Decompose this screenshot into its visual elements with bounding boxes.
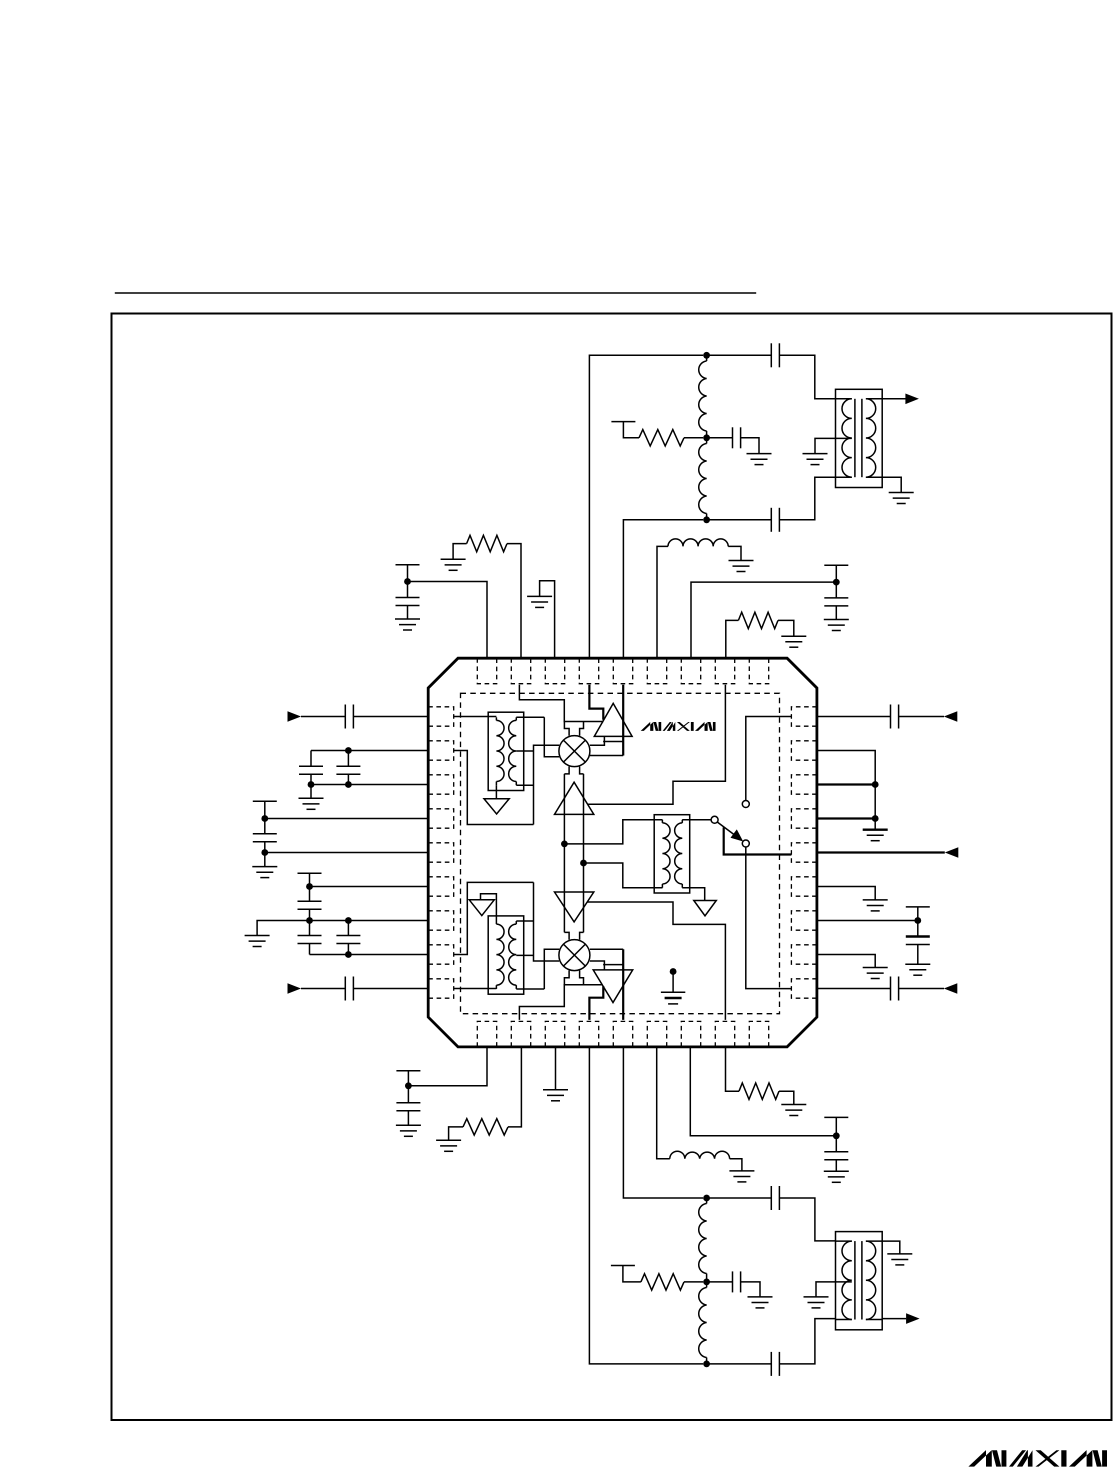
capacitor C12 (336, 936, 360, 944)
resistor R3 (738, 612, 778, 628)
wire pin R6 ground stub (817, 887, 875, 900)
mixer M1 (559, 736, 590, 767)
capacitor C19 (771, 1186, 779, 1210)
wire C20 to ground (741, 1282, 760, 1297)
ground R3 (781, 636, 806, 647)
wire upper throw to pin R1 (746, 717, 792, 801)
wire node bot-3 to C21 (707, 1363, 772, 1365)
capacitor C9 (253, 834, 277, 842)
wire node to T4 primary bottom (584, 863, 663, 888)
mixer M1 top collar right (580, 722, 584, 736)
ground R5b (781, 1105, 806, 1116)
ground triangle T3 (484, 799, 509, 814)
wire L3 to ground (728, 546, 741, 560)
ground pin B3 (543, 1090, 568, 1101)
wire pin R9 to C16 (817, 988, 891, 990)
wire pin L2 internal (454, 751, 534, 825)
wire pin L7 row (257, 921, 428, 936)
coil L1 bottom lead (706, 431, 708, 438)
wire to mixer M2 in+ (544, 949, 559, 989)
T5 right bottom lead (516, 988, 544, 990)
wire pin B3 ground stub (555, 1047, 557, 1090)
capacitor C5 (824, 598, 848, 606)
node VCC4-a (306, 883, 313, 890)
capacitor C6 (345, 705, 353, 729)
inductor L1 upper half (699, 361, 707, 431)
wire pin B6 to L4 (657, 1047, 670, 1159)
wire to mixer M2 in- (534, 882, 560, 961)
wire arrow to C13 (301, 988, 345, 990)
arrow input R1 (944, 711, 958, 722)
wire pin R3 bold (817, 783, 875, 785)
ground L3 (729, 561, 754, 572)
cap C10 bottom lead (309, 909, 311, 920)
wire exposed pad to ground (672, 972, 674, 993)
wire to mixer M1 in+ (534, 745, 560, 824)
node VCC3-b (261, 849, 268, 856)
arrow input R9 (944, 983, 958, 994)
T3 right bottom lead (516, 784, 533, 786)
wire T1 tap to ground (815, 438, 852, 453)
wire VCC3 bar to node (264, 801, 266, 818)
wire R2 to ground (453, 544, 467, 560)
switch pole contact (711, 816, 718, 823)
LO amp A4 pedestal (603, 964, 624, 966)
ground T1 tap (803, 454, 828, 465)
wire node to T4 primary top (564, 820, 662, 844)
mixer M2 bottom collar left (564, 971, 569, 985)
coil L6 top lead (706, 1282, 708, 1288)
wire pin R7 to VCC5 (817, 920, 918, 922)
wire C16 to arrow (899, 988, 944, 990)
transformer T3 (internal) (488, 712, 524, 790)
inductor L4 (670, 1151, 730, 1159)
coil L2 bottom lead (706, 514, 708, 520)
wire VCC6 bar to node (407, 1071, 409, 1086)
cap C10 top lead (309, 887, 311, 902)
supply terminal VCC5 (906, 906, 930, 908)
wire pin B5 to bottom net (623, 1047, 703, 1198)
wire pin B2 internal (519, 985, 602, 1020)
capacitor C13 (345, 977, 353, 1001)
resistor R2 (467, 535, 507, 551)
ground C4 (395, 619, 420, 630)
cap C11 bottom lead (309, 943, 311, 954)
coil L5 top lead (706, 1198, 708, 1204)
wire C21 to balun T2 lower (779, 1319, 835, 1364)
node L2-a (345, 747, 352, 754)
wire T1 output (882, 398, 905, 400)
node L7-b (345, 917, 352, 924)
wire L4 to ground (730, 1159, 742, 1171)
node L7-a (306, 917, 313, 924)
inductor L5 upper half (699, 1204, 707, 1274)
wire C14 to arrow (899, 716, 944, 718)
node junction top-1 (703, 352, 710, 359)
terminal stub drop top (623, 422, 639, 438)
node VCC3-a (261, 815, 268, 822)
wire pin T8 to R3 (726, 620, 739, 658)
node diff left (561, 841, 568, 848)
transformer T5 (internal) (488, 916, 524, 994)
wire VCC7 node to C18 (835, 1136, 837, 1152)
T4 secondary bottom lead (682, 888, 705, 901)
wire top node to C1 (707, 354, 772, 356)
wire VCC4 bar to node (309, 873, 311, 886)
wire VCC2 to pin T7 (691, 582, 836, 658)
wire VCC7 bar to node (835, 1117, 837, 1135)
node L8-a (345, 951, 352, 958)
mixer M1 bottom collar right (580, 767, 584, 774)
wire VCC6 node to C17 (407, 1086, 409, 1103)
IC pin pads (dashed) (428, 658, 817, 1047)
coil L1 top lead (706, 355, 708, 361)
wire lower throw to pin R9 (746, 847, 792, 989)
wire pin T2 to R2 (507, 544, 521, 659)
wire pin L8 row (310, 954, 429, 956)
capacitor C15 (906, 937, 930, 945)
wire pin T5 to bottom node (623, 520, 703, 658)
coil L2 top lead (706, 438, 708, 444)
coil L6 bottom lead (706, 1358, 708, 1364)
node diff right (580, 860, 587, 867)
wire pin B8 to R5b (726, 1047, 740, 1091)
wire bot node to C19 (707, 1197, 772, 1199)
ground L7 row (245, 936, 270, 947)
capacitor C10 (298, 901, 322, 909)
wire to pin L5 (265, 852, 428, 854)
node R4 (872, 815, 879, 822)
capacitor C4 (396, 598, 420, 606)
supply terminal VCC7 (824, 1116, 848, 1118)
T5 right tap lead (516, 954, 533, 956)
cap C12 top lead (347, 921, 349, 936)
MAXIM logo footer (968, 1450, 1107, 1466)
switch blade arrowhead (731, 829, 744, 841)
wire C15 to ground (917, 945, 919, 965)
T5 right top lead (516, 920, 533, 922)
wire pin L8 internal (454, 882, 534, 954)
supply terminal VCC1 (396, 564, 420, 566)
wire pin R5 bold (817, 851, 945, 853)
switch throw contact upper (742, 801, 749, 808)
switch throw contact lower (742, 840, 749, 847)
ground stub L3 row (310, 785, 312, 799)
node junction top-3 (703, 516, 710, 523)
coil L5 bottom lead (706, 1274, 708, 1282)
supply terminal VCC2 (824, 564, 848, 566)
wire R5b to ground (779, 1091, 794, 1104)
LO amp A1 (594, 703, 632, 736)
amp A3 (down) (555, 892, 594, 922)
wire C13 to pin L9 (353, 988, 428, 990)
node junction bot-3 (703, 1361, 710, 1368)
capacitor C8 (336, 766, 360, 774)
cap C11 top lead (309, 921, 311, 936)
transformer T4 (internal) (654, 815, 690, 893)
wire pin T2 internal (519, 685, 603, 722)
wire VCC1 to pin T1 (408, 582, 488, 659)
mixer M2 top collar left (564, 932, 569, 939)
T3 right top lead (516, 716, 544, 718)
header rule (115, 292, 756, 294)
resistor R6b (641, 1274, 684, 1290)
arrow input L1 (288, 711, 302, 722)
wire C5 to ground (835, 606, 837, 620)
wire C4 to ground (407, 606, 409, 620)
mixer M2 out lower (590, 961, 605, 970)
node junction bot-2 (703, 1279, 710, 1286)
arrow RF output bottom (906, 1313, 920, 1324)
wire pin L3 row (311, 784, 428, 786)
node junction bot-1 (703, 1195, 710, 1202)
wire C3 to balun T1 lower (779, 477, 835, 520)
ground C18 (824, 1171, 849, 1182)
node exposed pad (670, 968, 677, 975)
wire C2 to ground (741, 438, 759, 454)
wire VCC2 bar to node (835, 565, 837, 582)
transformer T1 (output balun) (836, 389, 883, 487)
mixer M1 top collar left (564, 722, 569, 736)
wire pin T6 to L3 (657, 546, 668, 658)
wire pin R4 bold (817, 817, 875, 819)
capacitor C1 (771, 343, 779, 367)
wire arrow to C6 (301, 716, 345, 718)
capacitor C17 (396, 1103, 420, 1111)
wire VCC1 bar to node (407, 565, 409, 582)
mixer M2 top collar right (580, 932, 584, 939)
ground T2 tap (804, 1297, 829, 1308)
terminal stub bar bottom (611, 1265, 635, 1267)
wire A3 to pin B8 (587, 902, 725, 1020)
T3 right tap lead (516, 750, 533, 752)
wire R1 to node top-2 (684, 437, 703, 439)
wire node top-3 to C3 (707, 519, 772, 521)
wire R3 to ground (778, 620, 794, 636)
capacitor C16 (891, 977, 899, 1001)
ground exposed pad (661, 992, 685, 1004)
MAXIM logo inside IC (641, 722, 716, 731)
wire VCC6 to pin B1 (408, 1047, 487, 1086)
wire R4b to ground (449, 1127, 463, 1140)
wire C17 to ground (407, 1111, 409, 1126)
ground C15 (905, 964, 930, 975)
ground pin T3 (527, 596, 552, 607)
supply terminal VCC6 (396, 1070, 420, 1072)
mixer M1 bottom collar left (564, 767, 569, 774)
wire VCC7 to pin B7 (690, 1047, 836, 1136)
ground R6 (863, 900, 888, 911)
node VCC5 (914, 917, 921, 924)
capacitor C3 (771, 508, 779, 532)
wire T2 output (882, 1318, 906, 1320)
node VCC2 (833, 579, 840, 586)
wire C19 to balun T2 upper (779, 1198, 835, 1241)
diff line left (563, 774, 565, 933)
switch blade (717, 822, 740, 839)
wire T2 tap to ground (816, 1282, 852, 1297)
wire pin B5 internal (LO) (622, 949, 624, 1020)
wire pin L1 to T3 primary (454, 716, 497, 718)
LO amp A4 (593, 970, 633, 1003)
resistor R1 (639, 430, 684, 446)
wire C1 to balun T1 upper (779, 355, 835, 399)
wire VCC5 bar to node (917, 907, 919, 921)
T3 left winding to gnd triangle (495, 785, 497, 799)
IC package outline U1 (428, 658, 817, 1047)
wire pin T3 ground stub (540, 581, 555, 658)
ground L4 (729, 1171, 754, 1182)
wire pin B4 internal (LO) (589, 986, 603, 1020)
cap C9 top lead (264, 819, 266, 834)
ground C17 (396, 1125, 421, 1136)
capacitor C18 (824, 1152, 848, 1160)
arrow input R5 (945, 847, 959, 858)
wire node top-2 to C2 (707, 437, 733, 439)
node VCC1 (404, 578, 411, 585)
cap C9 bottom lead (264, 842, 266, 853)
resistor R4b (463, 1119, 508, 1135)
wire pin R2 jog (817, 751, 875, 785)
wire pin R8 ground stub (817, 955, 875, 968)
node VCC6 (405, 1082, 412, 1089)
figure border frame (112, 314, 1112, 1421)
inductor L6 lower half (699, 1288, 707, 1358)
wire pin T8 internal (588, 685, 726, 805)
diff line right (583, 774, 585, 933)
mixer M2 bottom collar right (580, 971, 584, 985)
capacitor C21 (771, 1352, 779, 1376)
wire R3-R4 chain to ground (874, 785, 876, 830)
cap C15 top lead (917, 921, 919, 937)
cap C12 bottom lead (347, 943, 349, 954)
ground C20 (748, 1297, 773, 1308)
wire blade tap to pin R5 (724, 827, 792, 854)
arrow input L9 (288, 983, 302, 994)
cap C8 bottom lead (347, 774, 349, 784)
ground R4b (436, 1140, 461, 1151)
mixer M2 (559, 940, 590, 971)
ground triangle T5 (469, 900, 494, 916)
ground R2R3R4 (863, 830, 888, 841)
capacitor C11 (298, 936, 322, 944)
wire T1 secondary low to ground (882, 477, 901, 492)
cap C7 top lead (310, 751, 312, 767)
LO amp A1 pedestal (603, 741, 624, 743)
mixer M1 out lower (590, 755, 623, 757)
amp A2 (up) (555, 782, 594, 814)
node L3-a (345, 781, 352, 788)
node junction top-2 (703, 434, 710, 441)
ground VCC3 (252, 867, 277, 878)
node R3 (872, 781, 879, 788)
wire R6b to node bot-2 (684, 1281, 703, 1283)
ground R2 (441, 559, 466, 570)
ground stub VCC3 (264, 853, 266, 867)
ground C2 (747, 454, 772, 465)
wire to mixer M1 in- (544, 717, 559, 757)
wire pin L9 to T5 primary (454, 988, 497, 990)
inductor L3 (668, 539, 728, 547)
supply terminal VCC3 (253, 800, 277, 802)
arrow RF output top (905, 394, 919, 405)
ground T2 secondary (887, 1254, 912, 1265)
transformer T2 (output balun) (836, 1232, 883, 1330)
mixer M1 out upper (590, 736, 605, 745)
capacitor C2 (733, 427, 741, 448)
wire C18 to ground (835, 1160, 837, 1172)
wire T2 secondary high to ground (882, 1241, 900, 1254)
wire node bot-2 to C20 (707, 1281, 733, 1283)
wire C6 to pin L1 (353, 716, 428, 718)
T5 left winding to gnd triangle (481, 894, 497, 921)
ground L3 row (299, 798, 324, 809)
wire pin T4 internal (LO) (589, 685, 603, 720)
wire pin L2 row (311, 750, 428, 752)
capacitor C7 (299, 766, 323, 774)
mixer M2 out upper (590, 948, 623, 950)
wire VCC1 node to C4 (407, 582, 409, 598)
inductor L2 lower half (699, 444, 707, 514)
terminal stub bar top (611, 421, 635, 423)
wire pin R1 to C14 (817, 716, 891, 718)
wire pin B4 to bottom net (589, 1047, 703, 1364)
node VCC7 (833, 1132, 840, 1139)
supply terminal VCC4 (298, 872, 322, 874)
wire to pin L6 (310, 886, 429, 888)
node L3-b (308, 781, 315, 788)
ground triangle T4 (694, 901, 717, 916)
wire VCC2 node to C5 (835, 582, 837, 598)
ground C5 (824, 620, 849, 631)
terminal stub drop bottom (623, 1266, 641, 1282)
wire pin T4 to top node (589, 355, 703, 658)
capacitor C20 (733, 1271, 741, 1292)
wire to pin L4 (265, 818, 428, 820)
capacitor C14 (891, 705, 899, 729)
IC exposed pad dashed boundary (461, 693, 780, 1013)
ground R8 (863, 968, 888, 979)
wire pin B2 to R4b (508, 1047, 521, 1127)
resistor R5b (739, 1083, 779, 1099)
wire pin T5 internal (LO) (622, 685, 624, 756)
cap C8 top lead (347, 751, 349, 767)
T4 secondary top to switch (682, 819, 711, 821)
ground T1 secondary (889, 493, 914, 504)
cap C7 bottom lead (310, 774, 312, 784)
